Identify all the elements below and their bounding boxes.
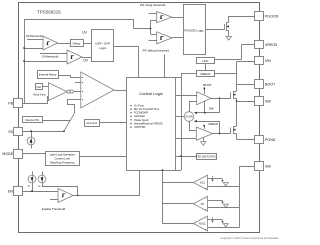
svg-text:Enable Threshold: Enable Threshold xyxy=(42,207,66,211)
svg-text:TPS568215: TPS568215 xyxy=(37,10,61,15)
svg-text:UV: UV xyxy=(82,31,87,35)
svg-text:Power Good: Power Good xyxy=(134,118,149,122)
svg-text:Copyright © 2016, Texas Instru: Copyright © 2016, Texas Instruments Inco… xyxy=(221,236,280,240)
svg-text:NOCL: NOCL xyxy=(199,222,207,226)
svg-text:Internal/External VREG5: Internal/External VREG5 xyxy=(134,121,163,125)
svg-text:SW: SW xyxy=(265,99,271,103)
svg-text:Soft-Start: Soft-Start xyxy=(134,114,145,118)
svg-text:OVthreshold: OVthreshold xyxy=(42,55,59,59)
svg-text:SW: SW xyxy=(209,107,214,111)
svg-text:Internal Ramp: Internal Ramp xyxy=(39,72,57,76)
svg-text:Internal SS: Internal SS xyxy=(25,118,39,122)
svg-text:ZC: ZC xyxy=(201,202,205,206)
svg-text:PGOOD: PGOOD xyxy=(265,14,279,18)
svg-text:TSD 160°C/175°C: TSD 160°C/175°C xyxy=(196,155,217,158)
svg-text:Current Limit: Current Limit xyxy=(55,156,71,160)
svg-text:BOOT: BOOT xyxy=(203,83,212,87)
svg-text:SS: SS xyxy=(8,130,13,134)
svg-text:VREG5: VREG5 xyxy=(265,43,277,47)
svg-text:PGOOD Logic: PGOOD Logic xyxy=(184,28,204,32)
svg-text:PG rising threshold: PG rising threshold xyxy=(140,3,166,7)
svg-text:FB: FB xyxy=(8,101,13,105)
svg-text:PG falling threshold: PG falling threshold xyxy=(143,48,170,52)
svg-text:Control Logic: Control Logic xyxy=(139,91,163,96)
svg-text:UVthreshold: UVthreshold xyxy=(26,34,43,38)
svg-text:One shot: One shot xyxy=(86,121,97,125)
svg-text:XCON: XCON xyxy=(185,116,192,119)
svg-text:EN: EN xyxy=(8,189,13,193)
svg-text:LDO: LDO xyxy=(202,59,209,63)
svg-text:SW: SW xyxy=(265,164,271,168)
svg-text:UVP/TSD: UVP/TSD xyxy=(134,125,145,129)
svg-text:Switching Frequency: Switching Frequency xyxy=(50,160,76,164)
svg-text:Logic: Logic xyxy=(99,46,107,50)
svg-text:VREG5: VREG5 xyxy=(200,72,211,76)
svg-text:-: - xyxy=(205,216,206,220)
svg-text:Vref: Vref xyxy=(36,85,41,89)
svg-text:BOOT: BOOT xyxy=(265,82,276,86)
svg-text:PGND: PGND xyxy=(265,138,276,142)
svg-text:Delay: Delay xyxy=(73,41,81,45)
svg-text:MODE: MODE xyxy=(2,152,13,156)
svg-text:VIN: VIN xyxy=(265,59,271,63)
svg-text:On Time: On Time xyxy=(134,103,144,107)
svg-text:FCCM/SKIP: FCCM/SKIP xyxy=(134,111,148,115)
svg-text:Error Amp: Error Amp xyxy=(33,92,46,96)
svg-text:-: - xyxy=(205,175,206,179)
svg-text:OCL: OCL xyxy=(200,181,206,185)
svg-text:OV: OV xyxy=(83,58,89,62)
svg-text:VREG5: VREG5 xyxy=(208,122,219,126)
svg-text:-: - xyxy=(205,197,206,201)
svg-text:Min On Time/Off Time: Min On Time/Off Time xyxy=(134,107,160,111)
svg-text:Light Load Operation: Light Load Operation xyxy=(50,152,76,156)
